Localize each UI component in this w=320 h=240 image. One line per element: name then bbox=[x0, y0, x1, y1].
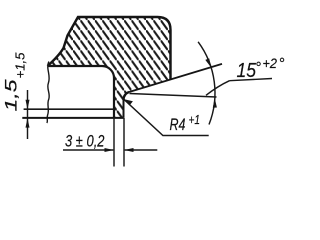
part body hatched section bbox=[48, 17, 171, 118]
svg-text:°: ° bbox=[255, 59, 261, 76]
part outline bbox=[48, 17, 171, 80]
svg-text:1,5: 1,5 bbox=[2, 79, 21, 112]
leader 15deg bbox=[206, 81, 230, 96]
groove right wall bbox=[123, 100, 125, 118]
dim line 3 right segment bbox=[125, 149, 158, 151]
svg-text:+1: +1 bbox=[189, 113, 201, 127]
down arrow bbox=[26, 100, 30, 110]
upper surface line bbox=[24, 108, 114, 110]
up arrow bbox=[26, 118, 30, 128]
svg-text:°: ° bbox=[279, 55, 285, 72]
svg-text:+2: +2 bbox=[263, 56, 278, 71]
fillet R4 bbox=[124, 92, 130, 100]
svg-text:3 ± 0,2: 3 ± 0,2 bbox=[65, 132, 105, 151]
wavy break line bbox=[47, 62, 49, 124]
chamfer surface 15deg line bbox=[129, 64, 222, 92]
svg-text:+1,5: +1,5 bbox=[14, 52, 28, 78]
groove left wall + corner + bottom edge bbox=[48, 66, 115, 118]
lower surface line bbox=[22, 117, 123, 119]
svg-text:15: 15 bbox=[237, 60, 257, 82]
R4 leader bbox=[124, 99, 209, 135]
angle dimension arc bbox=[198, 42, 215, 125]
arc arrow on sloped line bbox=[205, 58, 211, 67]
dim line 3 left segment bbox=[63, 149, 113, 151]
horizontal reference line B bbox=[130, 94, 217, 98]
vertical dim line 1,5 bbox=[27, 90, 29, 139]
svg-text:R4: R4 bbox=[170, 115, 186, 134]
arc arrow on ref line bbox=[213, 98, 217, 108]
dim 3 extension lines bbox=[113, 118, 115, 167]
